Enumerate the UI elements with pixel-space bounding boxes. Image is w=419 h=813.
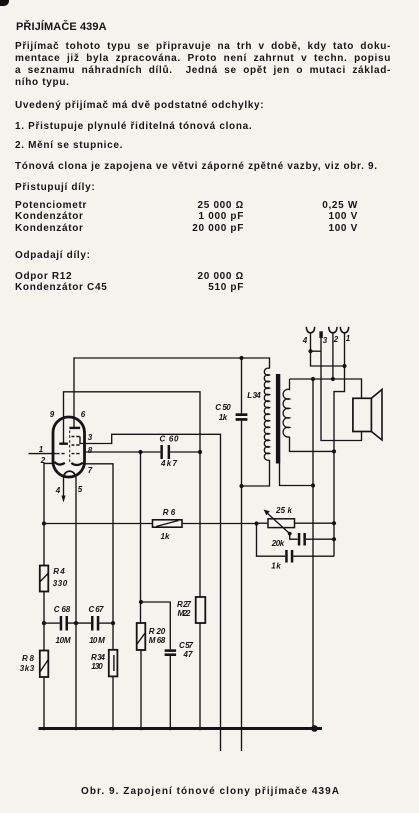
svg-text:5: 5 [78,485,83,494]
wire terminal4 down [311,333,345,366]
junction cap20k at feedback line [332,537,336,541]
svg-text:C 67: C 67 [89,605,105,614]
wire terminal3 down to speaker bottom [321,338,362,441]
wire ground line down to bus [312,379,314,729]
svg-text:C 68: C 68 [54,605,71,614]
tube V1 pentode grid g2 dashes [72,444,80,446]
tube V1 pentode grid g3 dashes [72,436,80,438]
resistor R6 diagonal [156,521,179,527]
wire heater pin4 stub [63,477,65,496]
wire secondary top / speaker top line [290,379,362,398]
wire C50 top lead [241,358,243,413]
svg-text:130: 130 [91,662,103,671]
svg-text:47: 47 [183,650,194,659]
resistor R4 [40,566,49,592]
wire heater pin5 to ground bus [75,477,77,729]
junction wiper tap [288,532,292,536]
corner scan mark [0,0,9,6]
svg-text:4: 4 [302,336,308,345]
junction C60 left node [138,450,142,454]
wire C68 to C67 [68,622,91,624]
wire node A down to R27 [199,452,201,597]
speaker frame [353,398,372,431]
svg-text:3: 3 [88,433,93,442]
heater pin4 arrowhead [61,496,65,503]
svg-text:1k: 1k [219,413,228,422]
resistor R8 [40,651,49,678]
svg-text:4: 4 [55,486,61,495]
wire pin7 cathode to R34 [85,464,114,650]
resistor R6 [153,520,183,527]
svg-text:R 34: R 34 [91,653,106,662]
junction C68 left [42,621,46,625]
wire pin8 grid line to C60 [85,451,161,453]
svg-text:330: 330 [53,579,68,588]
svg-text:4k7: 4k7 [160,459,178,468]
bus junction blobs [42,727,202,731]
svg-text:3: 3 [323,336,328,345]
capacitor C50 [236,413,248,416]
wire pot-left node down to cap 1k [257,523,286,556]
svg-text:R4: R4 [53,567,65,576]
wire C60-left node down to R20 [140,452,142,623]
svg-text:R 8: R 8 [22,654,35,663]
svg-text:M 68: M 68 [149,636,166,645]
svg-text:2: 2 [333,335,339,344]
wire grid pin1 stub [29,453,57,455]
wire C57 to ground bus [169,656,171,729]
junction R6 right / pot left [254,521,258,525]
transformer secondary winding [283,379,289,437]
svg-text:C 50: C 50 [215,403,231,412]
resistor R8 diagonal [40,660,48,672]
capacitor C60 [160,445,163,459]
tube V1 triode cathode arc (pin 2) [55,462,65,465]
wire C68 left lead [44,622,60,624]
tube V1 triode grid dashes (pin 1) [56,453,64,455]
wire pin6 plate to primary top [74,358,270,428]
wire pin9 plate to node A (C60 right) [64,392,201,452]
svg-text:25 k: 25 k [275,506,293,515]
wire terminal1 down to feedback line [334,333,345,556]
svg-text:1k: 1k [161,532,171,541]
wire pin3 screen to B+ rail [80,434,221,751]
capacitor 20k [298,533,301,546]
resistor R27 [196,597,206,623]
junction secondary bottom at feedback line [332,449,336,453]
svg-text:C 60: C 60 [160,435,180,444]
svg-text:8: 8 [88,446,93,455]
svg-text:R 20: R 20 [149,627,166,636]
transformer L34 primary winding [264,368,269,460]
junction C50 line at primary bottom [239,484,243,488]
wire R34 to ground bus [112,676,114,728]
wire C60 right to node A [170,451,200,453]
tube V1 heater arc [64,471,76,477]
wire R20 tap to C57 [141,602,170,649]
svg-text:10M: 10M [56,636,71,645]
wire R4 to C68 node [43,592,45,651]
tube V1 triode plate (pin 9) [59,443,68,445]
junction node A [198,450,202,454]
wire C50 bottom to B+ rail [241,421,243,751]
wire bridge terminal4 to terminal3 [311,350,322,352]
svg-text:1: 1 [346,334,351,343]
svg-text:7: 7 [88,466,93,475]
terminal hook 1 [340,327,348,333]
tube V1 pentode plate (pin 6) [69,427,80,429]
resistor R4 diagonal [40,574,48,582]
junction pot right at feedback line [332,521,336,525]
svg-text:R 6: R 6 [163,508,176,517]
svg-text:R 27: R 27 [177,600,192,609]
wire R6 line cathode to pot [44,523,257,525]
speaker horn [371,389,382,440]
resistor R34 inner mark [113,655,115,671]
capacitor C68 [60,616,63,631]
resistor R20 [137,623,146,650]
junction terminal4 bridge [308,349,312,353]
title [16,21,107,33]
svg-text:1 k: 1 k [271,562,281,571]
svg-text:6: 6 [81,410,86,419]
resistor R20 diagonal [137,633,145,644]
parts table [15,200,87,212]
tube V1 pentode beam shield (dashed) [69,431,71,463]
junction heater line at C68/C67 [74,621,78,625]
wire terminal2 down [332,333,334,379]
wire pot right to feedback line [295,522,335,524]
svg-text:C 57: C 57 [179,641,194,650]
capacitor 1k [285,550,288,563]
junction R6 left at cathode line [42,521,46,525]
svg-text:3k3: 3k3 [20,664,35,673]
tube V1 pentode cathode arc (pin 7) [71,463,83,465]
junction terminal2 at speaker line [331,377,335,381]
terminal pin 3 [319,331,322,338]
wire core to ground line [280,464,314,486]
wire primary bottom to C50 line [242,460,270,486]
transformer core [276,374,280,464]
wire R27 to ground bus [199,623,201,729]
tube V1 envelope [53,417,85,477]
wire cap 20k to feedback line [306,538,334,540]
wire R8 to ground bus [43,677,45,729]
potentiometer 25k body [268,519,295,528]
wire pin2 cathode down [44,463,53,565]
wire pot left lead [257,522,269,524]
junction C67 right [111,621,115,625]
resistor R34 [109,650,118,677]
junction core ground [311,483,315,487]
tube V1 pentode grid g1 dashes [72,453,80,455]
terminal hook 4 [306,327,314,333]
junction R20 tap [139,600,143,604]
wire C67 right lead [99,622,113,624]
ground bus [39,727,323,730]
svg-text:M22: M22 [178,609,192,618]
svg-text:L 34: L 34 [247,391,261,400]
ground bus end dot [311,725,318,732]
terminal hook 2 [329,327,337,333]
junction C50 top at primary line [239,356,243,360]
svg-text:20k: 20k [271,539,285,548]
potentiometer arrowhead [264,510,270,516]
wire cap 1k to feedback line [293,555,334,557]
junction ground line top [311,377,315,381]
paragraph [15,41,391,53]
svg-text:1: 1 [39,445,44,454]
capacitor C67 [91,616,94,631]
potentiometer 25k wiper arrow [267,513,290,534]
junction terminal1 at bridge line [342,364,346,368]
capacitor C57 [165,649,177,652]
svg-text:10 M: 10 M [89,636,105,645]
wire secondary bottom to feedback line [290,437,335,452]
wire R20 to ground bus [140,650,142,729]
figure caption [81,786,340,797]
wire wiper to cap 20k [290,534,298,540]
svg-text:9: 9 [50,410,55,419]
